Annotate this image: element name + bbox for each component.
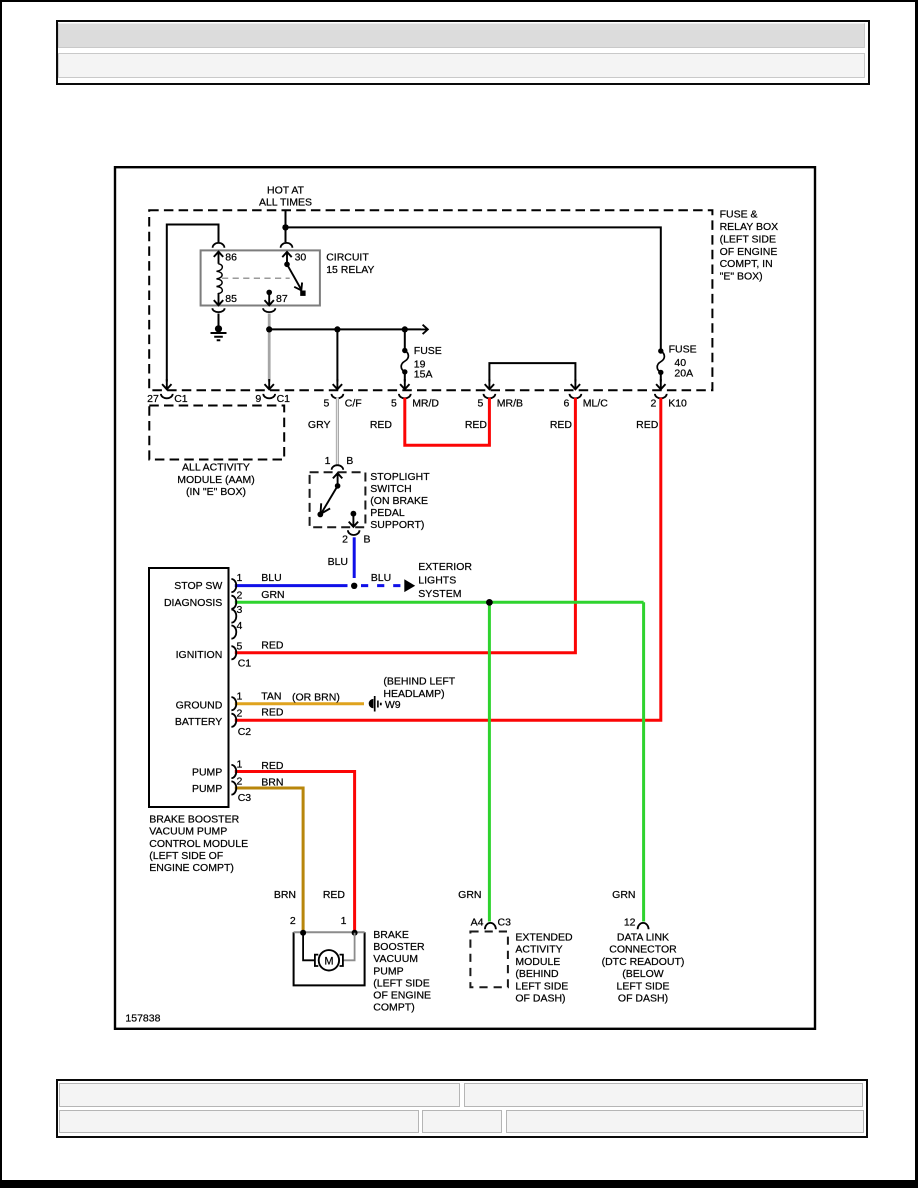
fuse F40 value label xyxy=(669,344,697,380)
svg-text:PUMP: PUMP xyxy=(192,783,222,795)
svg-text:C3: C3 xyxy=(238,792,252,804)
relay pin 85 internal arrow (down) xyxy=(214,293,223,305)
svg-text:ML/C: ML/C xyxy=(583,398,609,410)
svg-text:BATTERY: BATTERY xyxy=(175,716,222,728)
svg-text:TAN: TAN xyxy=(261,690,281,702)
svg-text:HOT AT: HOT AT xyxy=(267,185,305,197)
svg-text:CONTROL MODULE: CONTROL MODULE xyxy=(149,838,248,850)
svg-text:STOP SW: STOP SW xyxy=(174,580,222,592)
wire: BLU from stoplight switch pin 2 down xyxy=(353,537,356,578)
wire: HOT AT feed to fuse 40 xyxy=(286,227,661,348)
module pin 2 C1 (DIAGNOSIS) arc xyxy=(231,596,236,609)
svg-text:MR/B: MR/B xyxy=(497,398,523,410)
relay pin 30 internal arrow (up) xyxy=(282,252,291,264)
svg-text:PUMP: PUMP xyxy=(373,965,403,977)
svg-text:GRN: GRN xyxy=(261,589,284,601)
svg-text:(LEFT SIDE: (LEFT SIDE xyxy=(373,977,429,989)
svg-text:STOPLIGHT: STOPLIGHT xyxy=(370,471,430,483)
stoplight switch pivot node xyxy=(335,483,341,489)
wire: GRY from connector C/F to stoplight switch pin 1 xyxy=(336,398,339,465)
relay pin 85 lower connector arc xyxy=(212,308,224,312)
svg-text:DIAGNOSIS: DIAGNOSIS xyxy=(164,597,222,609)
wire: RED jumper MR/D to MR/B xyxy=(405,398,490,446)
svg-text:BRAKE: BRAKE xyxy=(373,929,409,941)
svg-text:RED: RED xyxy=(636,419,659,431)
svg-text:MR/D: MR/D xyxy=(412,398,439,410)
svg-text:1: 1 xyxy=(341,915,347,927)
all activity module (AAM) dashed box xyxy=(149,406,284,460)
connector 5 C/F xyxy=(324,394,362,410)
wire: TAN from module ground pin to W9 xyxy=(235,702,364,705)
stoplight switch dashed box xyxy=(310,472,366,527)
svg-text:SYSTEM: SYSTEM xyxy=(418,588,461,600)
wire: GRN drop to data link connector xyxy=(642,602,645,921)
extended activity module label xyxy=(515,932,573,1005)
connector 5 MR/D xyxy=(391,394,439,410)
wire: relay pin 85 to ground xyxy=(218,314,220,330)
svg-text:COMPT): COMPT) xyxy=(373,1002,414,1014)
svg-text:5: 5 xyxy=(237,640,243,652)
module pin 1 C3 (PUMP) arc xyxy=(231,765,236,778)
connector 2 K10 xyxy=(651,394,687,410)
arrowhead into connector 5 MR/B xyxy=(485,379,494,389)
fuse F40 (40, 20A) symbol xyxy=(657,348,664,375)
AAM label xyxy=(177,462,255,498)
connector 1 B (stoplight switch pin 1) xyxy=(325,455,354,470)
svg-text:4: 4 xyxy=(237,620,243,632)
svg-text:BLU: BLU xyxy=(371,572,391,584)
svg-text:HEADLAMP): HEADLAMP) xyxy=(383,688,444,700)
svg-text:GROUND: GROUND xyxy=(176,700,223,712)
svg-text:CONNECTOR: CONNECTOR xyxy=(609,944,677,956)
pump name label xyxy=(373,929,431,1014)
svg-text:LEFT SIDE: LEFT SIDE xyxy=(617,980,670,992)
stoplight switch pin 2 internal arrow (down) xyxy=(349,514,358,527)
svg-text:B: B xyxy=(346,455,353,467)
svg-text:ALL ACTIVITY: ALL ACTIVITY xyxy=(182,462,250,474)
arrowhead into connector 2 K10 xyxy=(656,379,665,389)
relay pin 86 internal arrow (up) xyxy=(214,252,223,264)
connector 12 (data link connector) xyxy=(624,917,649,930)
module pin 2 C2 (BATTERY) arc xyxy=(231,714,236,727)
arrowhead: to exterior lights system xyxy=(404,579,415,592)
connector 9 C1 (pin 9) xyxy=(255,393,290,405)
relay pin 86 connector arc xyxy=(213,243,225,248)
wire: fuse 40 to connector 2 K10 xyxy=(660,372,662,381)
svg-text:PEDAL: PEDAL xyxy=(370,507,405,519)
extended activity module dashed box xyxy=(470,932,508,988)
svg-text:RED: RED xyxy=(261,639,284,651)
pump internal wire left xyxy=(303,933,314,961)
svg-text:C1: C1 xyxy=(238,658,252,670)
wire: bus down to fuse 19 xyxy=(404,329,406,350)
motor M1 body xyxy=(319,950,339,970)
fuse & relay box enclosure (dashed) xyxy=(149,210,712,390)
junction on BLU wire xyxy=(351,583,357,589)
svg-text:85: 85 xyxy=(225,293,237,305)
diagram frame xyxy=(115,167,815,1029)
header panel xyxy=(56,20,870,85)
brake booster vacuum pump box xyxy=(294,932,365,985)
svg-text:OF DASH): OF DASH) xyxy=(618,993,668,1005)
svg-text:ENGINE COMPT): ENGINE COMPT) xyxy=(149,862,234,874)
svg-text:C/F: C/F xyxy=(345,398,362,410)
arrowhead into connector 27 C1 xyxy=(162,379,171,389)
exterior lights system label xyxy=(418,561,472,600)
stoplight switch arm with arrowhead xyxy=(321,486,338,514)
svg-text:VACUUM PUMP: VACUUM PUMP xyxy=(149,826,227,838)
wire: fuse 19 to connector 5 MR/D xyxy=(404,372,406,382)
svg-text:(LEFT SIDE OF: (LEFT SIDE OF xyxy=(149,850,223,862)
svg-text:(DTC READOUT): (DTC READOUT) xyxy=(602,956,685,968)
svg-text:EXTENDED: EXTENDED xyxy=(515,932,573,944)
svg-text:2: 2 xyxy=(237,590,243,602)
svg-text:DATA LINK: DATA LINK xyxy=(617,932,669,944)
svg-text:(OR BRN): (OR BRN) xyxy=(292,692,340,704)
svg-text:15 RELAY: 15 RELAY xyxy=(326,264,374,276)
svg-text:87: 87 xyxy=(276,293,288,305)
svg-text:157838: 157838 xyxy=(125,1012,160,1024)
svg-text:B: B xyxy=(364,534,371,546)
pump pin 1 junction node xyxy=(352,930,358,936)
W9 location label (BEHIND LEFT HEADLAMP) xyxy=(383,676,455,700)
svg-text:LIGHTS: LIGHTS xyxy=(418,575,456,587)
wire: bus down to connector 5 C/F xyxy=(336,329,338,381)
svg-text:5: 5 xyxy=(478,398,484,410)
splice W9 symbol xyxy=(369,696,382,712)
svg-text:K10: K10 xyxy=(668,398,687,410)
wire: BRN from module pump pin 2 to pump xyxy=(235,788,303,932)
svg-text:9: 9 xyxy=(255,393,261,405)
svg-text:15A: 15A xyxy=(414,369,433,381)
stoplight switch open contact node xyxy=(317,512,323,518)
svg-text:IGNITION: IGNITION xyxy=(176,649,223,661)
module pin 1 C2 (GROUND) arc xyxy=(231,697,236,710)
svg-text:1: 1 xyxy=(237,691,243,703)
svg-text:(BEHIND LEFT: (BEHIND LEFT xyxy=(383,676,455,688)
svg-text:OF DASH): OF DASH) xyxy=(515,993,565,1005)
junction on bus at pin 87 xyxy=(266,326,272,332)
brake booster vacuum pump control module box xyxy=(149,568,229,807)
junction: HOT AT node xyxy=(282,224,288,230)
svg-text:2: 2 xyxy=(342,534,348,546)
arrowhead into connector 6 ML/C xyxy=(571,379,580,389)
svg-text:A4: A4 xyxy=(471,917,484,929)
relay pin 87 internal arrow (down) xyxy=(265,293,274,305)
svg-text:RED: RED xyxy=(261,760,284,772)
svg-text:BLU: BLU xyxy=(261,572,281,584)
relay U1: CIRCUIT 15 RELAY body xyxy=(201,250,320,305)
svg-text:(LEFT SIDE: (LEFT SIDE xyxy=(720,233,776,245)
relay armature pivot node (pin 30) xyxy=(284,262,290,268)
arrowhead: bus continues right xyxy=(421,325,428,334)
relay internal dashed link coil-to-armature xyxy=(222,277,290,279)
relay pin 30 connector arc xyxy=(281,243,293,248)
svg-text:RED: RED xyxy=(323,889,346,901)
module pin 3 C1 arc xyxy=(231,610,236,623)
relay stationary contact (square) xyxy=(300,291,305,296)
footer panel xyxy=(56,1079,868,1138)
svg-text:RED: RED xyxy=(261,707,284,719)
junction on GRN wire xyxy=(486,599,493,606)
svg-text:3: 3 xyxy=(237,604,243,616)
wire: relay pin 87 gray drop to splice xyxy=(268,314,271,330)
module pin 2 C3 (PUMP) arc xyxy=(231,781,236,794)
svg-text:OF ENGINE: OF ENGINE xyxy=(373,990,431,1002)
svg-text:C1: C1 xyxy=(277,393,291,405)
svg-text:5: 5 xyxy=(324,398,330,410)
svg-text:1: 1 xyxy=(325,455,331,467)
motor M1 brush left xyxy=(315,955,318,966)
svg-text:C2: C2 xyxy=(238,726,252,738)
svg-text:(ON BRAKE: (ON BRAKE xyxy=(370,495,428,507)
svg-text:(BEHIND: (BEHIND xyxy=(515,968,559,980)
svg-text:"E" BOX): "E" BOX) xyxy=(720,271,763,283)
svg-text:2: 2 xyxy=(237,708,243,720)
svg-text:SUPPORT): SUPPORT) xyxy=(370,519,424,531)
stoplight switch pin 2 contact node xyxy=(351,511,357,517)
stoplight switch internal arrow up (pin 1) xyxy=(333,473,342,485)
module pin 5 C1 (IGNITION) arc xyxy=(231,646,236,659)
relay pin 87 contact node xyxy=(266,290,272,296)
wire: BLU dashed to exterior lights system xyxy=(361,584,403,587)
svg-text:BRAKE BOOSTER: BRAKE BOOSTER xyxy=(149,814,239,826)
svg-text:BOOSTER: BOOSTER xyxy=(373,941,425,953)
node HOT AT ALL TIMES xyxy=(259,185,312,209)
stoplight switch label xyxy=(370,471,430,531)
svg-text:LEFT SIDE: LEFT SIDE xyxy=(515,980,568,992)
connector A4 C3 (extended activity module) xyxy=(471,917,511,930)
pump pin 2 junction node xyxy=(300,930,306,936)
svg-text:VACUUM: VACUUM xyxy=(373,953,418,965)
arrowhead into connector 5 C/F xyxy=(333,379,342,389)
svg-text:86: 86 xyxy=(225,252,237,264)
wire: RED from module pump pin 1 to pump xyxy=(235,772,355,932)
connector 2 B (stoplight switch pin 2) xyxy=(342,530,370,545)
ground symbol G101 xyxy=(211,325,227,340)
svg-text:PUMP: PUMP xyxy=(192,767,222,779)
junction on bus above C/F xyxy=(334,326,340,332)
wire: GRN drop to extended activity module xyxy=(488,602,491,921)
relay armature arm with arrowhead xyxy=(287,264,301,289)
module pin 4 C1 arc xyxy=(231,626,236,639)
svg-text:1: 1 xyxy=(237,572,243,584)
svg-text:FUSE: FUSE xyxy=(414,345,442,357)
svg-text:BRN: BRN xyxy=(261,776,283,788)
connector 5 MR/B xyxy=(478,394,523,410)
svg-text:(BELOW: (BELOW xyxy=(622,968,664,980)
wire: RED from ML/C down to ignition xyxy=(235,398,576,653)
svg-text:MODULE: MODULE xyxy=(515,956,560,968)
connector 6 ML/C xyxy=(564,394,609,410)
svg-text:C3: C3 xyxy=(498,917,512,929)
svg-text:GRN: GRN xyxy=(458,889,481,901)
svg-text:30: 30 xyxy=(295,252,307,264)
svg-text:BLU: BLU xyxy=(328,556,348,568)
svg-text:COMPT, IN: COMPT, IN xyxy=(720,258,773,270)
svg-text:OF ENGINE: OF ENGINE xyxy=(720,246,778,258)
svg-text:2: 2 xyxy=(651,398,657,410)
svg-text:GRY: GRY xyxy=(308,419,331,431)
svg-text:6: 6 xyxy=(564,398,570,410)
svg-text:MODULE (AAM): MODULE (AAM) xyxy=(177,474,255,486)
svg-text:ACTIVITY: ACTIVITY xyxy=(515,944,562,956)
wire: HOT AT feed down to relay pin 30 xyxy=(285,210,287,242)
svg-text:1: 1 xyxy=(237,758,243,770)
svg-text:EXTERIOR: EXTERIOR xyxy=(418,561,472,573)
module pin 1 C1 (STOP SW) arc xyxy=(231,579,236,592)
wire: BLU stop sw horizontal from module pin 1 xyxy=(235,584,348,587)
svg-text:ALL TIMES: ALL TIMES xyxy=(259,197,312,209)
wire: gray drop from splice to connector 9 C1 xyxy=(268,329,271,381)
svg-text:RED: RED xyxy=(465,419,488,431)
wire: RED from K10 down to battery xyxy=(235,398,661,721)
svg-text:FUSE: FUSE xyxy=(669,344,697,356)
svg-text:27: 27 xyxy=(147,393,159,405)
svg-text:12: 12 xyxy=(624,917,636,929)
svg-text:RED: RED xyxy=(550,419,573,431)
svg-text:CIRCUIT: CIRCUIT xyxy=(326,252,369,264)
relay label CIRCUIT 15 RELAY xyxy=(326,252,374,276)
arrowhead into connector 9 C1 xyxy=(265,379,274,389)
arrowhead into connector 5 MR/D xyxy=(400,379,409,389)
fuse F19 value label xyxy=(414,345,442,381)
wire: internal jumper MR/B to ML/C xyxy=(489,363,575,381)
relay coil (between pins 86 and 85) xyxy=(217,264,223,294)
svg-text:2: 2 xyxy=(290,915,296,927)
pump internal wire right (gray) xyxy=(343,933,355,961)
data link connector label xyxy=(602,932,685,1005)
svg-text:20A: 20A xyxy=(674,368,693,380)
fuse & relay box label xyxy=(720,209,779,283)
svg-text:M: M xyxy=(324,956,333,968)
fuse F19 (19, 15A) symbol xyxy=(401,348,408,375)
svg-text:RED: RED xyxy=(370,419,393,431)
svg-text:5: 5 xyxy=(391,398,397,410)
svg-text:GRN: GRN xyxy=(612,889,635,901)
svg-text:2: 2 xyxy=(237,775,243,787)
relay pin 87 lower connector arc xyxy=(263,308,275,312)
svg-text:C1: C1 xyxy=(174,393,188,405)
wire: relay pin 86 to connector 27 C1 xyxy=(167,225,219,382)
svg-text:BRN: BRN xyxy=(274,889,296,901)
wire: GRN from module pin 2 to DLC drop xyxy=(235,601,644,604)
module name label xyxy=(149,814,248,874)
svg-text:W9: W9 xyxy=(385,699,401,711)
svg-text:RELAY BOX: RELAY BOX xyxy=(720,221,779,233)
svg-text:(IN "E" BOX): (IN "E" BOX) xyxy=(186,486,246,498)
junction on bus above fuse 19 xyxy=(402,326,408,332)
svg-text:FUSE &: FUSE & xyxy=(720,209,758,221)
svg-text:SWITCH: SWITCH xyxy=(370,483,411,495)
motor M1 brush right xyxy=(340,955,343,966)
connector 27 C1 (pin 27) xyxy=(147,393,188,405)
wire: pin 87 distribution bus xyxy=(269,328,421,330)
